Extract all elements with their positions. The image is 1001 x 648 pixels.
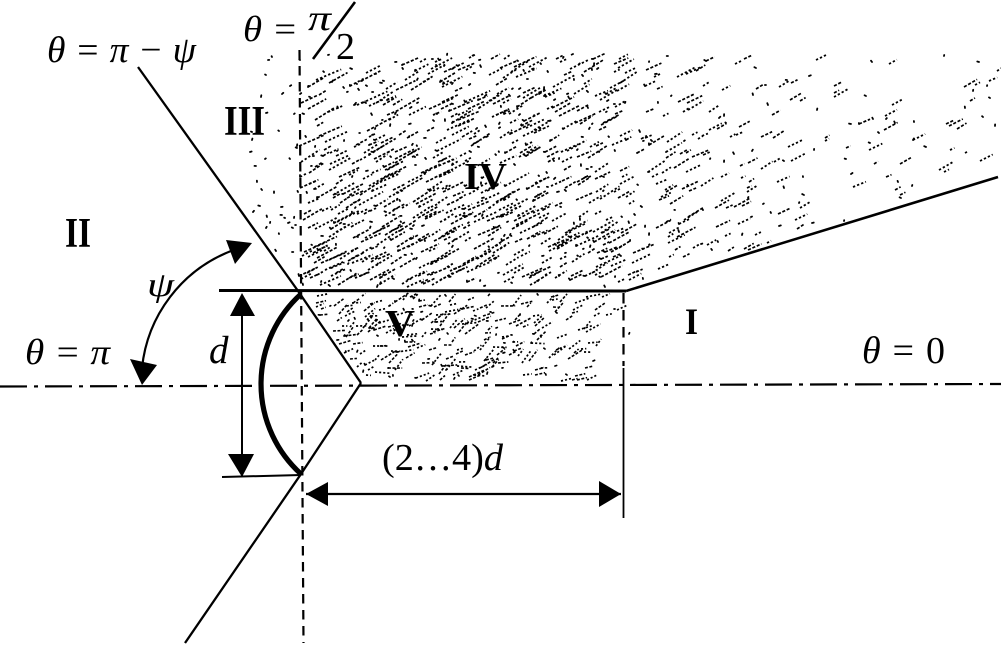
thick arc: drill edge <box>261 294 301 474</box>
wire: vertical solid extension line at x=623 (lower part) <box>623 368 625 518</box>
hatching region V: dotted chains (group A) <box>316 293 628 381</box>
hatching region V: speck dots <box>318 294 629 379</box>
psi arc arrow <box>142 251 231 368</box>
wire: vertical dashed extension line at x=623 (upper part) <box>622 293 624 366</box>
svg-text:π: π <box>308 0 332 38</box>
svg-text:0: 0 <box>926 330 945 372</box>
wire: horizontal dash-dot centerline theta axis <box>0 384 1001 387</box>
svg-text:(2…4)d: (2…4)d <box>382 437 504 479</box>
svg-text:θ =: θ = <box>243 9 298 49</box>
dimension arrowhead left <box>306 482 328 506</box>
wire: rising boundary line of region IV <box>626 177 998 291</box>
svg-text:ψ: ψ <box>147 267 175 304</box>
svg-text:I: I <box>685 302 698 343</box>
hatching region V: dotted chains (group B) <box>316 293 605 380</box>
svg-text:θ = π − ψ: θ = π − ψ <box>47 30 197 71</box>
wire: lower wedge edge line <box>185 383 361 643</box>
wire: vertical dashed line theta=pi/2 <box>300 50 304 643</box>
dimension d arrowhead up <box>230 293 255 316</box>
dimension (2...4)d line <box>306 493 621 495</box>
hatching region IV: speck dots (also region III sparse dots) <box>250 54 995 287</box>
svg-text:II: II <box>65 211 91 257</box>
wire: upper diagonal line theta=pi-psi <box>138 67 361 383</box>
dimension d arrowhead down <box>228 454 254 477</box>
svg-text:V: V <box>385 303 416 345</box>
wire: horizontal solid boundary line <box>219 289 626 293</box>
svg-text:θ =: θ = <box>862 330 916 372</box>
dimension d vertical line <box>241 296 243 476</box>
hatching region IV: dotted diagonal chains (group A) <box>300 54 1001 287</box>
psi arc arrowhead top <box>226 240 252 264</box>
svg-text:III: III <box>224 99 265 145</box>
hatching region IV: dotted diagonal chains (group B) <box>299 54 977 285</box>
svg-text:d: d <box>209 329 229 372</box>
dimension d bottom tick <box>222 475 301 477</box>
svg-text:2: 2 <box>336 26 355 68</box>
svg-text:IV: IV <box>464 156 508 198</box>
svg-text:θ = π: θ = π <box>25 332 111 372</box>
dimension arrowhead right <box>599 481 621 507</box>
psi arc arrowhead bottom <box>130 359 157 385</box>
